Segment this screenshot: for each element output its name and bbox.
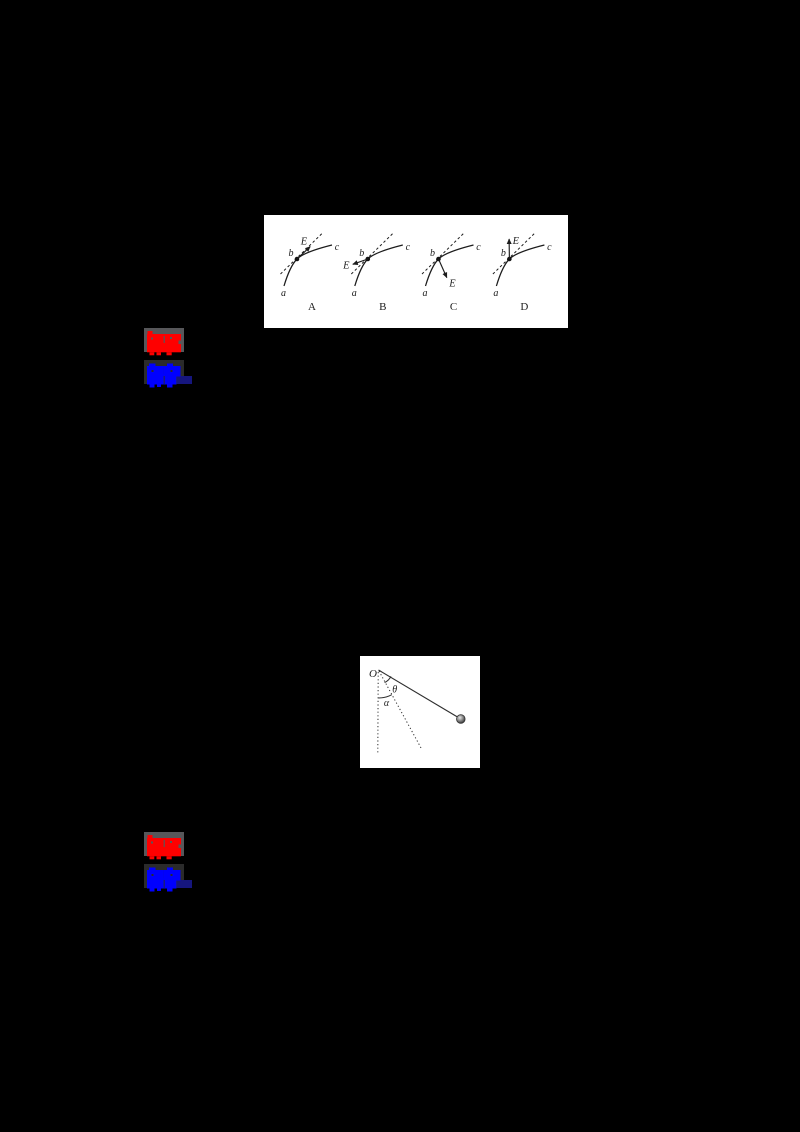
string to ball xyxy=(379,670,458,717)
E arrow up-right along tangent xyxy=(297,247,310,259)
ball xyxy=(457,715,466,724)
svg-text:E: E xyxy=(448,279,456,290)
figure 2: pendulum xyxy=(360,656,480,768)
svg-text:α: α xyxy=(384,698,390,709)
svg-text:D: D xyxy=(520,301,528,313)
figure 1: four curve diagrams A-D xyxy=(264,215,568,328)
svg-text:E: E xyxy=(512,236,520,247)
theta arc xyxy=(385,676,391,682)
svg-text:E: E xyxy=(300,237,308,248)
navy tab 2 xyxy=(177,880,192,888)
vertical dotted line xyxy=(377,672,379,754)
E arrow to lower-left xyxy=(353,259,368,264)
analysis badge 1 (blue) xyxy=(144,360,184,384)
diagram D xyxy=(493,234,552,314)
navy tab 1 xyxy=(177,376,193,384)
E arrow to lower-right xyxy=(439,259,447,278)
diagram C xyxy=(422,234,481,314)
E arrow straight up xyxy=(508,239,510,259)
diagram A xyxy=(281,234,340,314)
svg-text:E: E xyxy=(342,261,350,272)
answer badge 1 (red) xyxy=(144,328,184,352)
svg-text:B: B xyxy=(379,301,386,313)
diagram B xyxy=(342,234,410,314)
svg-text:θ: θ xyxy=(392,685,397,696)
svg-text:C: C xyxy=(450,301,457,313)
analysis badge 2 (blue) xyxy=(144,864,184,888)
answer badge 2 (red) xyxy=(144,832,184,856)
svg-text:O: O xyxy=(369,668,377,680)
svg-text:A: A xyxy=(308,301,316,313)
alpha arc xyxy=(378,695,391,698)
slanted dotted line xyxy=(379,671,422,749)
